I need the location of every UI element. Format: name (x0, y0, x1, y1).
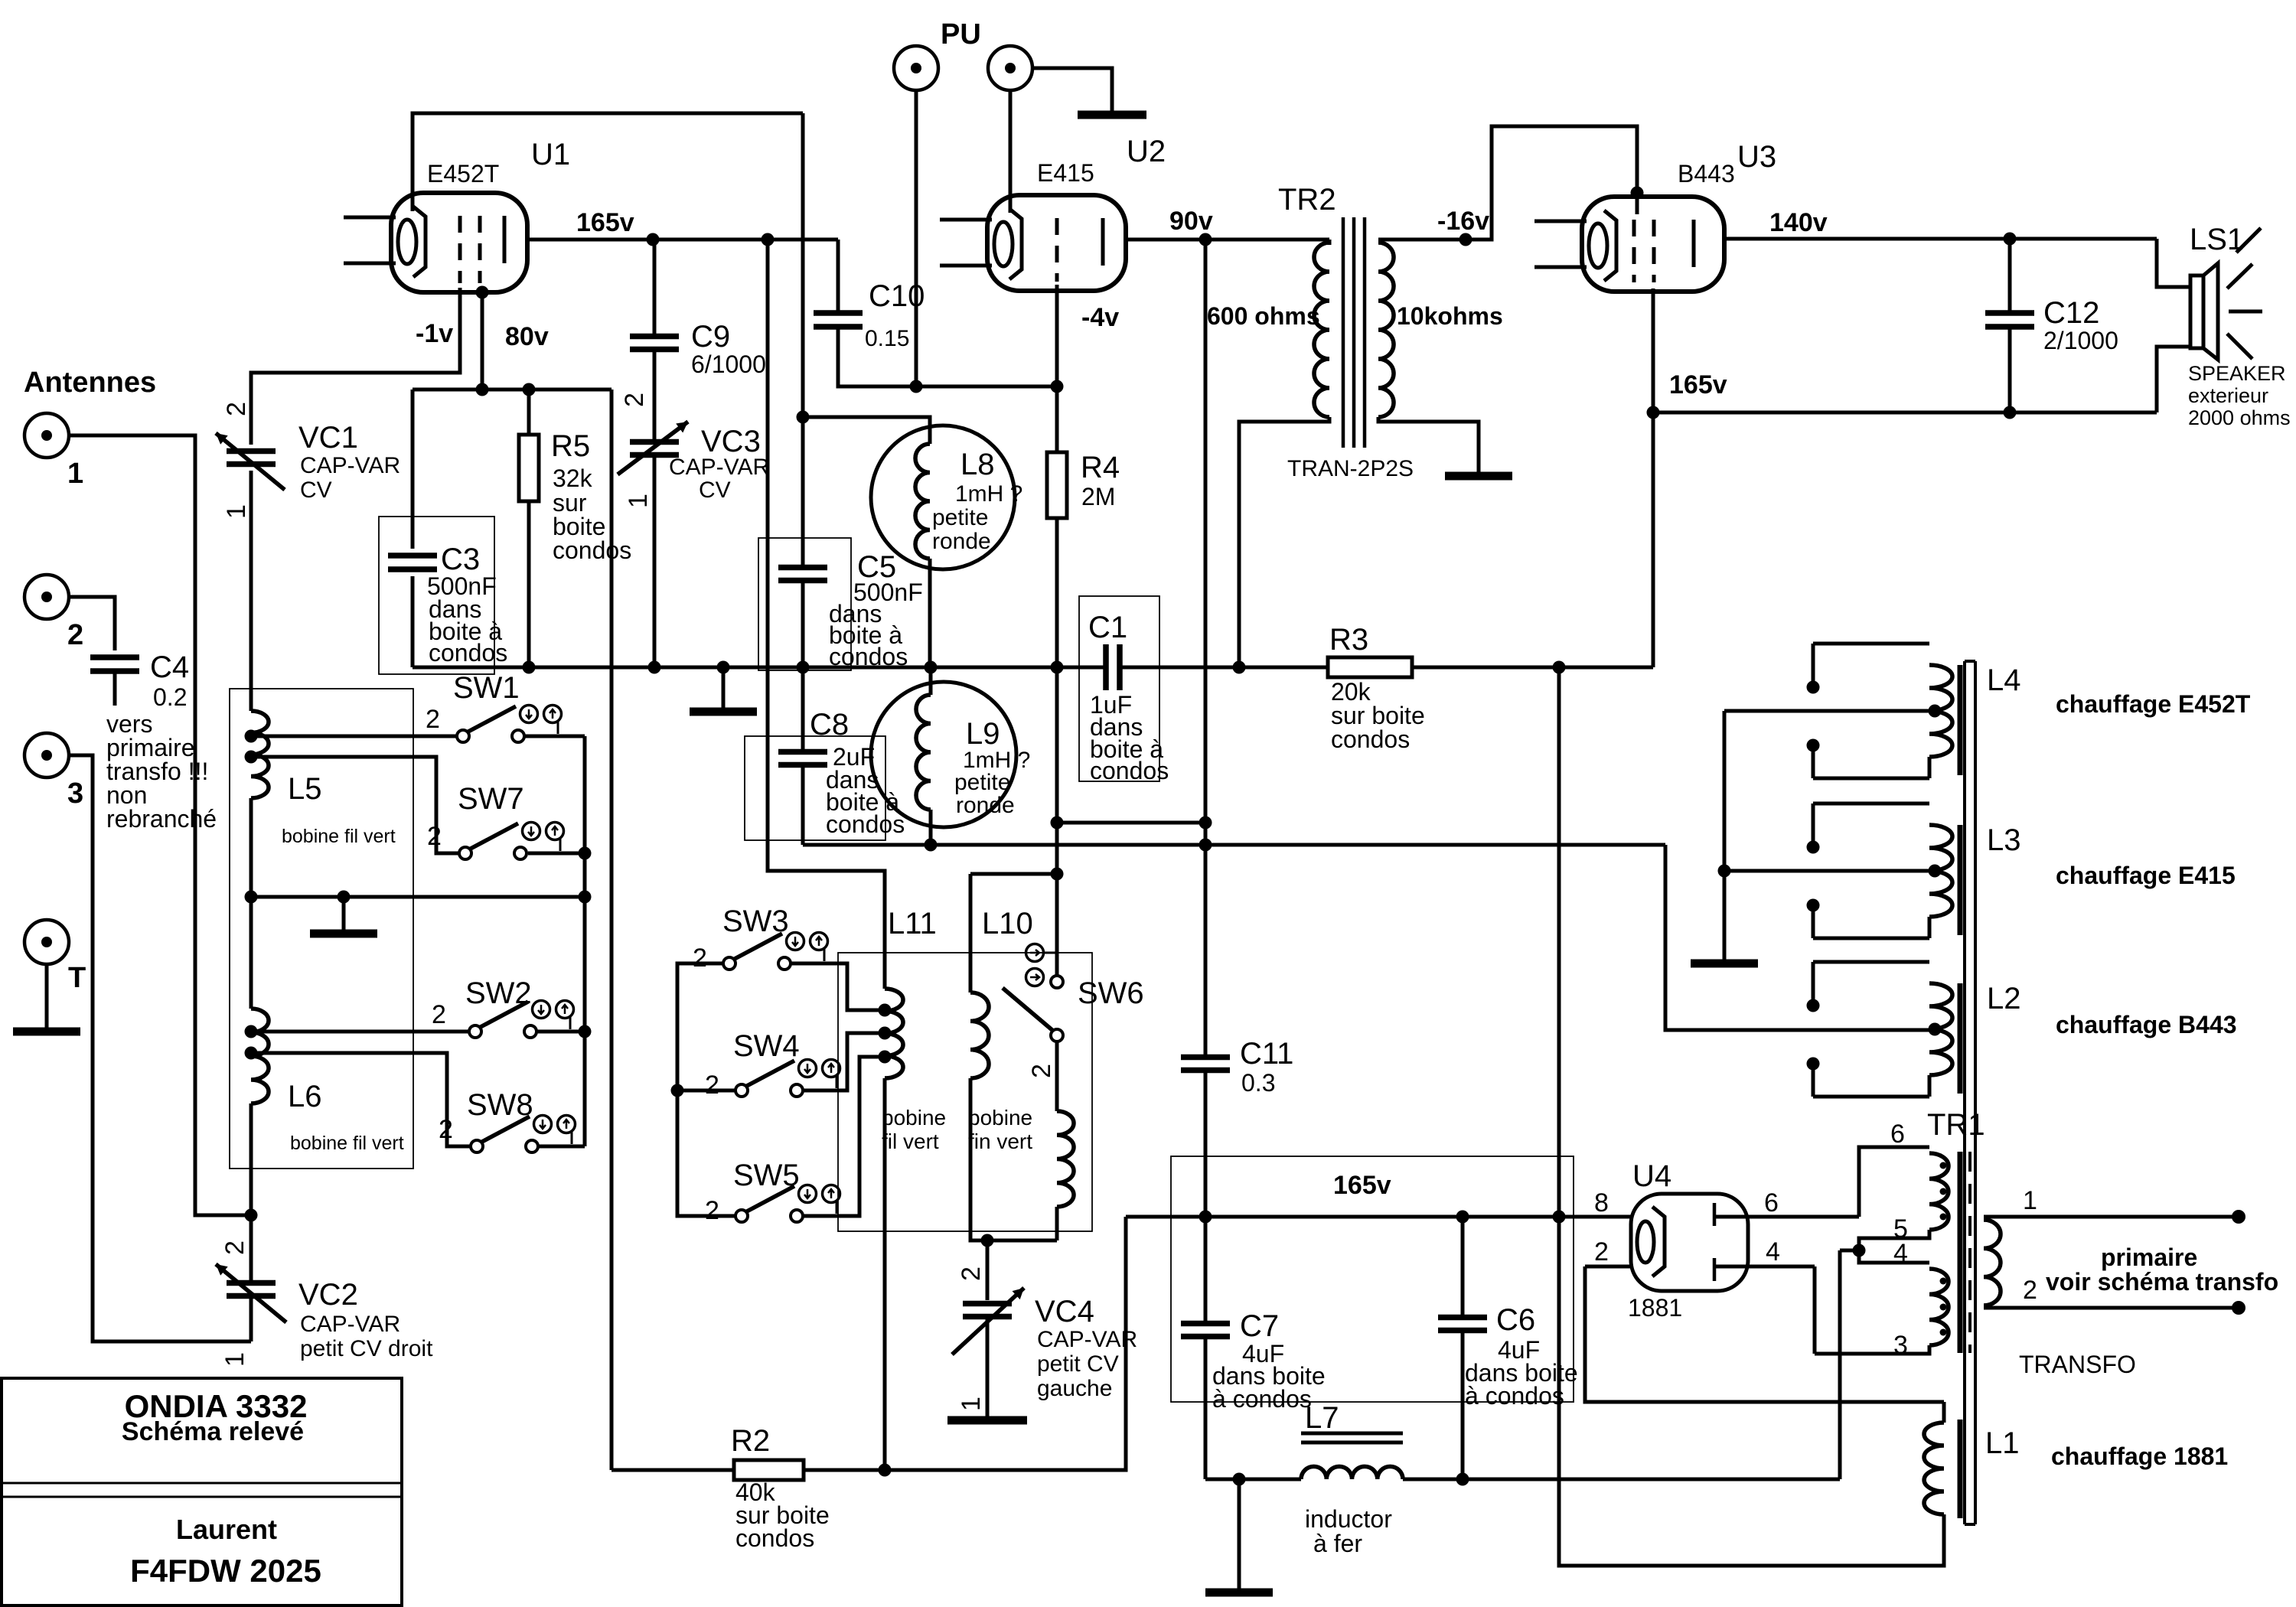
svg-text:chauffage E452T: chauffage E452T (2056, 690, 2251, 718)
junction R5 top (523, 383, 536, 396)
wire 165v drop to L1 bottom (1559, 667, 1926, 1566)
wire C10 top leg (837, 240, 840, 313)
svg-text:condos: condos (429, 639, 507, 667)
svg-text:B443: B443 (1678, 160, 1735, 187)
ground mid rail (342, 897, 346, 934)
junction C12 bottom (2004, 406, 2017, 419)
wire SW1 right (524, 735, 585, 738)
wire L10 top leg (969, 874, 973, 993)
svg-text:voir schéma transfo: voir schéma transfo (2046, 1268, 2278, 1296)
wire L8 bottom to rail (928, 559, 932, 667)
wire 5-4 junction to bottom bus (1840, 1249, 1859, 1253)
wire antenna3 to VC2 bottom (69, 755, 251, 1341)
wire pin3 (1815, 1345, 1929, 1354)
svg-text:SW6: SW6 (1078, 976, 1144, 1010)
ground VC4 (947, 1416, 1027, 1425)
wire C5 bottom leg (801, 581, 805, 667)
svg-text:L6: L6 (288, 1080, 322, 1113)
wire pin5 (1859, 1230, 1929, 1250)
svg-text:bobine fil vert: bobine fil vert (290, 1133, 404, 1154)
svg-text:165v: 165v (576, 208, 634, 237)
heater winding L3 (1813, 802, 1929, 806)
capacitor C1 1uF (1106, 644, 1120, 690)
wire pin2 to L1 top (1585, 1266, 1944, 1402)
wire to L8 top (803, 417, 930, 444)
svg-text:L10: L10 (982, 907, 1033, 940)
wire pin6 up (1859, 1147, 1929, 1217)
wire R4 top lead (1055, 386, 1059, 452)
svg-text:32k: 32k (553, 464, 593, 492)
wire R5 bottom lead (527, 501, 531, 667)
wire L5 tap2 to SW7 (257, 757, 459, 853)
wire C9 top leg (653, 240, 657, 337)
wire L6 bottom (249, 1103, 253, 1215)
wire TR2 primary top stub (1328, 240, 1332, 245)
wire U4 pin4 (1714, 1265, 1815, 1269)
junction R2 L11 165v link (879, 1464, 892, 1477)
svg-text:L5: L5 (288, 772, 322, 806)
svg-text:Antennes: Antennes (24, 367, 156, 399)
svg-text:2: 2 (426, 705, 440, 734)
wire VC3 bottom leg (653, 455, 657, 667)
wire L1 bottom stub (1924, 1514, 1944, 1566)
svg-text:CAP-VAR: CAP-VAR (669, 455, 769, 480)
inductor L11 (885, 989, 903, 1078)
wire to speaker top (2157, 239, 2190, 287)
svg-text:C3: C3 (441, 543, 480, 576)
svg-text:1: 1 (220, 1352, 249, 1367)
svg-text:L4: L4 (1987, 663, 2021, 697)
wire C5 top leg (801, 417, 805, 567)
wire L6 tap1 to SW2 (257, 1030, 469, 1034)
wire 90v down to rail A (1204, 240, 1208, 845)
triode U1 E452T (391, 193, 527, 292)
capacitor C5 500nF (778, 568, 827, 581)
wire mid rail (251, 895, 585, 899)
ground at PU (1078, 111, 1146, 119)
wire L5 tap1 to SW1 (257, 735, 457, 738)
svg-text:CV: CV (699, 478, 731, 503)
svg-text:bobine fil vert: bobine fil vert (282, 826, 396, 847)
variable capacitor VC3 (630, 442, 679, 455)
svg-text:C1: C1 (1088, 611, 1127, 644)
tap of L4 (1929, 705, 1942, 718)
svg-text:L3: L3 (1987, 823, 2021, 857)
svg-text:C4: C4 (150, 650, 189, 684)
svg-text:C9: C9 (691, 320, 730, 354)
wire SW7 right (528, 852, 585, 856)
junction R5 bottom (523, 661, 536, 674)
svg-text:petite: petite (954, 770, 1010, 795)
wire C3 top leg (411, 390, 415, 549)
wire R4 column to segment B (1055, 667, 1059, 823)
wire PU left down (915, 90, 918, 386)
box around C1 (1079, 596, 1159, 781)
junction TR2 return on rail (1233, 661, 1246, 674)
wire U2 grid bottom lead (1055, 285, 1059, 386)
svg-text:rebranché: rebranché (106, 805, 217, 833)
wire L9 top to rail (929, 667, 933, 695)
junction L8 L9 (925, 661, 938, 674)
wire PU right to U2 grid (1009, 90, 1013, 213)
resistor R2 40k (734, 1460, 804, 1480)
capacitor C11 0.3 (1181, 1058, 1230, 1071)
svg-text:SW4: SW4 (733, 1029, 800, 1063)
core dashed line (1968, 1152, 1971, 1353)
ground TR2 secondary (1477, 422, 1481, 476)
wire C3 bottom leg (411, 576, 415, 667)
capacitor C9 (630, 337, 679, 350)
wire 165v bottom right (1653, 411, 2157, 415)
svg-text:L2: L2 (1987, 982, 2021, 1015)
svg-text:bobine: bobine (968, 1106, 1032, 1129)
svg-text:8: 8 (1594, 1188, 1609, 1217)
junction pins 5 4 (1853, 1244, 1866, 1257)
svg-text:2: 2 (957, 1266, 986, 1281)
svg-text:C6: C6 (1496, 1303, 1535, 1337)
variable capacitor VC1 (227, 451, 276, 464)
ground under T (45, 964, 49, 1032)
wire segment B (1057, 821, 1205, 825)
wire L3 tap (1724, 869, 1932, 873)
svg-text:C12: C12 (2043, 296, 2099, 330)
wire C11 top leg (1204, 845, 1208, 1058)
ground heater center taps (1723, 949, 1727, 963)
svg-text:1: 1 (2023, 1186, 2037, 1215)
switch SW4 (735, 1084, 748, 1097)
speaker LS1 (2190, 275, 2203, 348)
box around L11 L10 (838, 953, 1092, 1231)
wire U1 grid to VC1 (251, 288, 460, 445)
svg-text:C10: C10 (869, 279, 925, 313)
wire up to TR1 pin5-4 (1838, 1250, 1842, 1479)
svg-text:2: 2 (432, 1000, 446, 1029)
wire pin3 up to U4 pin4 (1813, 1266, 1817, 1354)
svg-text:SW5: SW5 (733, 1159, 800, 1192)
junction L10 top (1051, 868, 1064, 881)
svg-text:à condos: à condos (1465, 1382, 1564, 1410)
wire L4 tap (1724, 709, 1932, 713)
wire rail A (803, 843, 1665, 847)
svg-text:R5: R5 (551, 429, 590, 463)
svg-text:gauche: gauche (1037, 1376, 1112, 1401)
svg-text:SW7: SW7 (458, 782, 524, 816)
svg-text:-16v: -16v (1437, 207, 1489, 236)
svg-text:6: 6 (1890, 1120, 1905, 1149)
svg-text:R4: R4 (1081, 451, 1120, 484)
wire C11 bottom leg (1204, 1070, 1208, 1217)
wire L1 top stub (1942, 1402, 1946, 1423)
svg-text:0.2: 0.2 (153, 683, 187, 711)
junction SW7 bus (579, 847, 592, 860)
svg-text:L8: L8 (960, 448, 995, 481)
tetrode U3 B443 (1582, 197, 1724, 292)
wire SW6 to lower coil (1055, 1041, 1059, 1111)
inductor L10 (970, 993, 989, 1078)
svg-text:fil vert: fil vert (882, 1129, 939, 1153)
svg-text:petit CV droit: petit CV droit (300, 1336, 433, 1361)
svg-text:2: 2 (67, 619, 83, 651)
wire U1 screen to 80v rail (481, 292, 484, 390)
svg-text:1881: 1881 (1628, 1294, 1682, 1322)
svg-text:SW3: SW3 (722, 905, 789, 938)
switch SW6 (1051, 976, 1063, 988)
svg-text:C8: C8 (810, 708, 849, 742)
wire SW3 to L11 tap1 (791, 963, 879, 1010)
svg-text:L11: L11 (888, 907, 937, 940)
wire pin4 winding top (1859, 1250, 1929, 1263)
svg-text:primaire: primaire (2101, 1244, 2197, 1271)
junction C9 top (647, 233, 660, 246)
wire C8 bottom leg (801, 765, 805, 845)
wire primaire 2 (1984, 1306, 2239, 1310)
box around C3 (379, 517, 494, 674)
junction C7 top (1199, 1211, 1212, 1224)
wire SW4 left (677, 1089, 735, 1093)
svg-text:1: 1 (67, 458, 83, 490)
svg-text:CAP-VAR: CAP-VAR (300, 453, 400, 478)
junction VC4 (981, 1234, 994, 1247)
junction U1 screen pin (476, 286, 489, 299)
svg-text:2: 2 (220, 1240, 249, 1255)
connector PU left (894, 46, 938, 90)
wire U2 anode to TR2 (1126, 238, 1329, 242)
svg-text:U3: U3 (1737, 140, 1776, 174)
svg-text:-1v: -1v (416, 319, 453, 348)
inductor L8 in circle (871, 425, 1015, 569)
wire VC1 to L5 (249, 471, 253, 711)
svg-text:VC1: VC1 (298, 421, 358, 455)
tap1 L11 (879, 1004, 892, 1017)
connector T (24, 920, 69, 964)
svg-text:à fer: à fer (1313, 1530, 1362, 1557)
wire link to 165v wire (885, 1217, 1126, 1470)
svg-text:2/1000: 2/1000 (2043, 327, 2118, 354)
svg-text:4: 4 (1766, 1237, 1780, 1266)
wire L9 bottom to rail A (929, 810, 933, 845)
junction L8 branch (797, 411, 810, 424)
svg-text:L9: L9 (966, 717, 1000, 751)
wire SW4 to L11 tap2 (803, 1033, 879, 1090)
svg-text:2: 2 (705, 1196, 719, 1225)
switch SW3 (723, 957, 735, 970)
connector PU right (988, 46, 1032, 90)
capacitor C10 (814, 313, 863, 327)
connector antenna 2 (24, 575, 69, 619)
svg-text:condos: condos (829, 643, 908, 670)
wire lower coil bottom (1055, 1207, 1059, 1240)
wire top rail down to C5 column (801, 113, 805, 417)
terminal primaire 1 (2232, 1210, 2245, 1224)
svg-text:LS1: LS1 (2190, 223, 2244, 256)
svg-text:Schéma relevé: Schéma relevé (122, 1417, 304, 1446)
wire VC2 top leg (249, 1215, 253, 1283)
svg-text:C11: C11 (1240, 1037, 1293, 1071)
svg-text:fin vert: fin vert (968, 1129, 1032, 1153)
wire SW2 right (536, 1030, 585, 1034)
svg-text:2: 2 (705, 1071, 719, 1100)
tap2 L5 (245, 751, 258, 764)
wire TR2 secondary bottom (1378, 417, 1479, 473)
wire L4 tap down (1723, 711, 1727, 960)
svg-text:condos: condos (735, 1524, 814, 1552)
svg-text:165v: 165v (1333, 1171, 1391, 1200)
junction C6 bottom (1456, 1473, 1469, 1486)
wire U4 pin6 (1714, 1215, 1859, 1219)
wire bottom left part (1205, 1478, 1301, 1482)
svg-text:TRANSFO: TRANSFO (2019, 1351, 2136, 1378)
wire R4 bottom lead (1055, 518, 1059, 667)
svg-text:T: T (68, 962, 86, 994)
wire L10 bottom (970, 1078, 1057, 1240)
junction R4 bottom (1051, 661, 1064, 674)
svg-text:2: 2 (1594, 1237, 1609, 1266)
wire 165v rail to L11 top (768, 240, 885, 989)
svg-text:VC2: VC2 (298, 1278, 358, 1312)
tap1 L6 (245, 1025, 258, 1038)
capacitor C8 2uF (778, 752, 827, 765)
tap2 L6 (245, 1047, 258, 1060)
junction C11 column (1199, 839, 1212, 852)
wire VC4 top leg (986, 1240, 990, 1300)
wire C6 top leg (1461, 1217, 1465, 1317)
svg-text:ronde: ronde (956, 793, 1015, 818)
inductor L5 (251, 711, 269, 798)
junction segment B left (1051, 817, 1064, 830)
junction U2 grid R4 (1051, 380, 1064, 393)
wire C7 top leg (1204, 1217, 1208, 1324)
svg-text:0.15: 0.15 (865, 326, 909, 351)
wire 80v rail (413, 388, 612, 392)
junction segment B right (1199, 817, 1212, 830)
wire TR2 primary bottom return (1239, 417, 1329, 667)
svg-text:L1: L1 (1985, 1426, 2020, 1460)
TR2 secondary coil 10kohms (1378, 243, 1394, 417)
svg-text:chauffage 1881: chauffage 1881 (2051, 1442, 2228, 1470)
junction ground mid (338, 891, 351, 904)
wire L6 tap2 to SW8 (257, 1053, 471, 1146)
wire SW3 SW5 common bus (677, 963, 735, 1216)
svg-text:petite: petite (932, 505, 988, 530)
wire U1 grid cap to top rail (413, 113, 803, 211)
svg-text:CV: CV (300, 478, 332, 503)
capacitor C4 (90, 657, 139, 671)
wire C9 to VC3 (653, 350, 657, 442)
wire to speaker bottom (2157, 347, 2190, 412)
svg-text:0.3: 0.3 (1241, 1069, 1275, 1097)
junction 165v drop (1553, 1211, 1566, 1224)
wire L5 bottom to mid rail (249, 798, 253, 897)
svg-text:2: 2 (1027, 1064, 1056, 1078)
tap2 L11 (879, 1027, 892, 1040)
svg-text:U2: U2 (1127, 135, 1166, 168)
rectifier tube U4 1881 (1631, 1194, 1748, 1291)
svg-text:bobine: bobine (882, 1106, 946, 1129)
capacitor C12 (1985, 313, 2034, 327)
tap of L2 (1929, 1023, 1942, 1036)
wire TR2 secondary top to U3 grid (1378, 126, 1637, 240)
junction 165v wire (1647, 406, 1660, 419)
svg-text:chauffage B443: chauffage B443 (2056, 1011, 2237, 1038)
svg-text:Laurent: Laurent (176, 1514, 277, 1545)
triode U2 E415 (987, 195, 1126, 291)
svg-text:2: 2 (2023, 1276, 2037, 1305)
junction L3 tap ground (1718, 865, 1731, 878)
box around C8 (745, 736, 885, 840)
ground on rail 872 (722, 667, 726, 712)
wire PU right to ground (1032, 68, 1112, 112)
svg-text:condos: condos (1090, 757, 1169, 784)
wire rail C1 to R3 (1120, 666, 1328, 670)
resistor R3 20k (1328, 657, 1412, 677)
junction 165v drop (1553, 661, 1566, 674)
wire C8 top leg (801, 667, 805, 751)
svg-text:2000 ohms: 2000 ohms (2188, 406, 2291, 429)
svg-text:TRAN-2P2S: TRAN-2P2S (1287, 456, 1414, 481)
svg-text:U4: U4 (1632, 1159, 1671, 1193)
wire SW6 column upper (1055, 823, 1059, 874)
junction U3 grid cap (1631, 187, 1644, 200)
core thick segments (1958, 665, 1963, 1518)
svg-text:TR2: TR2 (1278, 183, 1336, 217)
wire C7 bottom leg (1204, 1337, 1208, 1479)
junction L11 feed (762, 233, 775, 246)
svg-text:CAP-VAR: CAP-VAR (300, 1312, 400, 1337)
title block box (2, 1378, 402, 1605)
svg-text:140v: 140v (1769, 208, 1828, 237)
svg-text:R2: R2 (731, 1424, 770, 1458)
svg-text:VC3: VC3 (701, 425, 761, 458)
junction SW4 common (671, 1084, 684, 1097)
svg-text:2: 2 (439, 1115, 453, 1144)
svg-text:U1: U1 (531, 138, 570, 171)
svg-text:2: 2 (222, 402, 251, 416)
svg-text:SW1: SW1 (453, 671, 520, 705)
svg-text:C7: C7 (1240, 1309, 1279, 1343)
wire rail A to L2 tap (1665, 845, 1938, 1030)
capacitor C7 4uF (1181, 1324, 1230, 1337)
junction screen 80v (476, 383, 489, 396)
junction ground tap (717, 661, 730, 674)
connector antenna 1 (24, 413, 69, 458)
wire rail R3 to right corner (1412, 666, 1653, 670)
svg-text:2M: 2M (1081, 483, 1115, 510)
transformer TR2 core (1343, 217, 1365, 448)
wire mid rail to L6 (249, 897, 253, 1009)
resistor R5 32k (519, 435, 539, 501)
svg-text:600 ohms: 600 ohms (1207, 302, 1320, 330)
wire U1 anode 165v rail (527, 238, 838, 242)
junction PU left (910, 380, 923, 393)
wire C4 stub (113, 671, 117, 706)
wire 165v to U4 pin8 (1126, 1215, 1631, 1219)
switch SW5 (735, 1210, 748, 1222)
variable capacitor VC2 (227, 1283, 276, 1296)
wire U4 pin2 stub (1585, 1265, 1631, 1269)
svg-text:L7: L7 (1305, 1401, 1339, 1435)
resistor R4 2M (1047, 452, 1067, 518)
svg-text:90v: 90v (1169, 207, 1213, 236)
svg-text:3: 3 (1893, 1331, 1908, 1360)
svg-text:R3: R3 (1329, 623, 1368, 657)
svg-text:SPEAKER: SPEAKER (2188, 362, 2286, 385)
svg-text:exterieur: exterieur (2188, 384, 2268, 407)
wire C12 bottom leg (2008, 327, 2012, 412)
junction L6 VC2 antenna1 (245, 1209, 258, 1222)
junction ground bottom (1233, 1473, 1246, 1486)
svg-text:1: 1 (222, 504, 251, 519)
wire antenna2 to C4 (69, 597, 115, 650)
